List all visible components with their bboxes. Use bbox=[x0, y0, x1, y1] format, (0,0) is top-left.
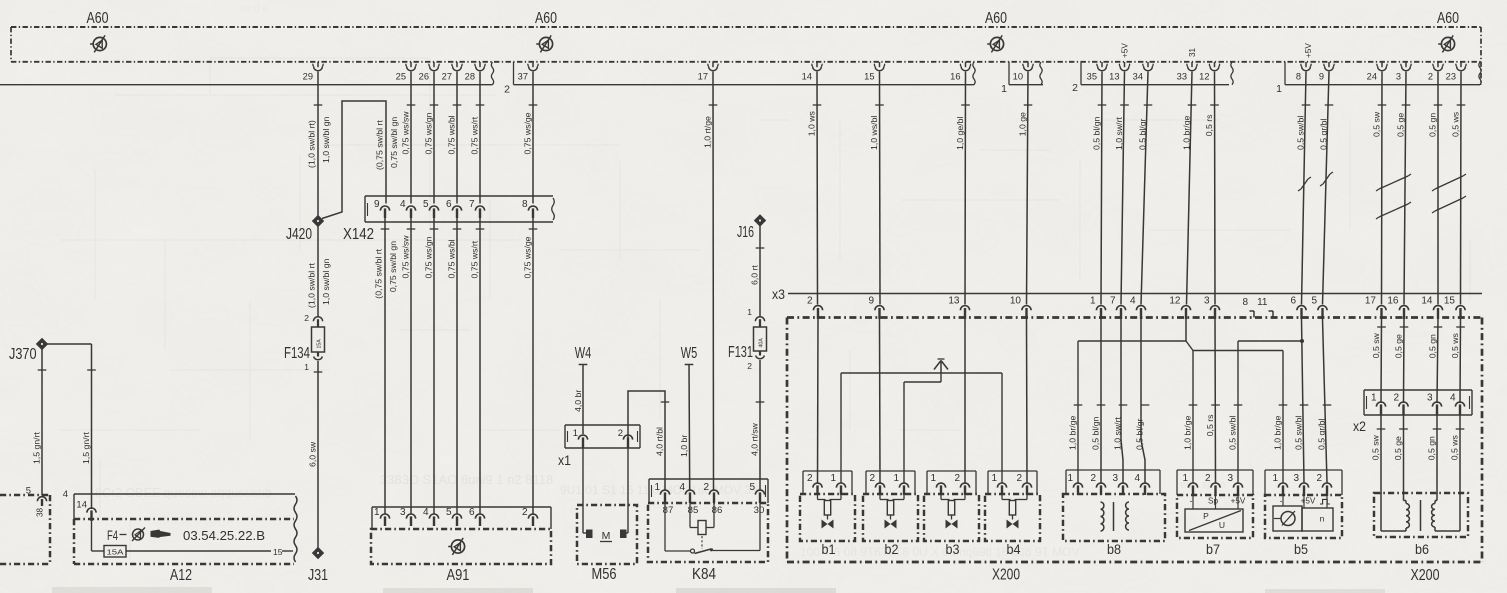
svg-text:J16: J16 bbox=[737, 224, 754, 241]
svg-text:03.54.25.22.B: 03.54.25.22.B bbox=[183, 528, 265, 543]
A60 pin 15 socket bbox=[864, 62, 885, 82]
svg-text:14: 14 bbox=[802, 72, 812, 82]
wire X200 pin to x2 (0,5 gn) bbox=[1437, 319, 1438, 403]
svg-text:1: 1 bbox=[654, 482, 660, 493]
wire A60 to X142 at x411 bbox=[410, 72, 412, 204]
label 1,0 sw/rt at x1123 bbox=[1113, 405, 1128, 450]
fuse F131 bbox=[728, 307, 767, 371]
injector valve b3 bbox=[924, 471, 979, 557]
svg-text:0,5 gr/bl: 0,5 gr/bl bbox=[1319, 119, 1329, 150]
label 4,0 rt/sw bbox=[750, 402, 765, 456]
A60 pin 17 socket bbox=[698, 62, 719, 82]
svg-text:1: 1 bbox=[1090, 296, 1096, 307]
wire X200 pin12 to b8/b7/b5 branch bbox=[1078, 319, 1283, 483]
ground point W5 bbox=[681, 345, 698, 490]
svg-text:11: 11 bbox=[1257, 297, 1268, 308]
svg-text:M: M bbox=[602, 530, 611, 542]
A60 pin 23 socket bbox=[1446, 62, 1467, 82]
wire X200 pin to injector x880 bbox=[879, 319, 882, 483]
svg-text:1,0 ge: 1,0 ge bbox=[1018, 112, 1028, 136]
svg-text:28: 28 bbox=[465, 72, 475, 82]
wire A60 to X200 (0,5 rs) bbox=[1214, 72, 1217, 305]
svg-text:0,75 ws/rt: 0,75 ws/rt bbox=[470, 116, 480, 154]
svg-text:1,0 br/ge: 1,0 br/ge bbox=[1182, 115, 1192, 149]
connector x3 line bbox=[772, 286, 1482, 302]
wire X200 pin7 to b8 bbox=[1121, 319, 1123, 483]
motor M56 bbox=[577, 448, 637, 583]
svg-text:J370: J370 bbox=[9, 346, 37, 363]
svg-text:38: 38 bbox=[36, 507, 45, 517]
svg-text:2: 2 bbox=[522, 507, 528, 518]
svg-text:1,0 br/ge: 1,0 br/ge bbox=[1183, 415, 1193, 449]
X200 pin 7 bbox=[1110, 296, 1126, 320]
svg-text:0,5 gn: 0,5 gn bbox=[1428, 334, 1438, 358]
svg-text:33: 33 bbox=[1177, 72, 1187, 82]
svg-text:2: 2 bbox=[304, 313, 309, 323]
svg-text:-: - bbox=[1190, 497, 1193, 506]
label 0,5 sw below x2 bbox=[1371, 429, 1386, 460]
wire A60 pin23 to X200 pin15 bbox=[1460, 72, 1463, 305]
svg-text:1,0 br/ge: 1,0 br/ge bbox=[1068, 415, 1078, 449]
svg-text:0,75 ws/rt: 0,75 ws/rt bbox=[470, 240, 480, 278]
svg-text:2: 2 bbox=[1393, 393, 1399, 404]
wire X200 pin5 to b5 bbox=[1323, 319, 1328, 483]
svg-text:1,5 gn/rt: 1,5 gn/rt bbox=[81, 432, 91, 464]
wire x2 to b6 (0,5 ge) bbox=[1403, 415, 1405, 494]
wire J420 to X142 pin9 bbox=[322, 101, 386, 219]
connector X142 bbox=[343, 196, 554, 243]
labels below X142 x385 bbox=[374, 229, 398, 299]
svg-text:Sp: Sp bbox=[1208, 497, 1218, 506]
A60 pin 28 socket bbox=[465, 62, 486, 82]
svg-text:4,0 rt/sw: 4,0 rt/sw bbox=[750, 422, 760, 456]
svg-text:40A: 40A bbox=[758, 338, 764, 348]
A60 pin 9 socket bbox=[1319, 62, 1334, 82]
svg-text:15A: 15A bbox=[316, 339, 322, 349]
shell end squiggle 2 bbox=[973, 62, 975, 85]
svg-text:0,75 ws/bl: 0,75 ws/bl bbox=[447, 239, 457, 278]
wire A60 to X200 (1,0 sw/rt) bbox=[1121, 72, 1125, 305]
label 0,5 rs at x1215.5 bbox=[1205, 405, 1220, 436]
label 0,5 gn below x2 bbox=[1427, 429, 1442, 460]
svg-text:3: 3 bbox=[1227, 473, 1233, 484]
svg-text:F4: F4 bbox=[107, 527, 118, 543]
X200 pin 2 bbox=[807, 296, 823, 320]
label 0,75 ws/gn bbox=[424, 105, 439, 155]
shell 2 bracket+line bbox=[514, 62, 975, 85]
component A91 (connector strip + box + ground) bbox=[371, 507, 551, 584]
svg-text:J31: J31 bbox=[308, 567, 328, 584]
wire X200 pin to x2 (0,5 ws) bbox=[1459, 319, 1462, 403]
A60 label #2 bbox=[535, 10, 557, 27]
svg-text:0,5 rs: 0,5 rs bbox=[1204, 114, 1214, 136]
label 0,5 ws (pin23) bbox=[1451, 105, 1466, 137]
X200 pin 13 bbox=[948, 296, 969, 320]
svg-text:b8: b8 bbox=[1107, 541, 1121, 557]
svg-text:X142: X142 bbox=[343, 226, 374, 243]
label 0,5 sw above x2 bbox=[1371, 327, 1386, 358]
svg-text:9: 9 bbox=[868, 296, 874, 307]
wire A60 pin24 to X200 pin17 bbox=[1381, 72, 1384, 305]
svg-text:A60: A60 bbox=[87, 10, 109, 27]
A60 pin 10 socket bbox=[1013, 62, 1034, 82]
svg-text:0,75 ws/bl: 0,75 ws/bl bbox=[447, 115, 457, 154]
arrow symbol up bbox=[934, 359, 948, 373]
control unit X200 box bbox=[787, 318, 1482, 585]
svg-text:0,5 sw: 0,5 sw bbox=[1371, 434, 1381, 460]
X200 pin 10 bbox=[1010, 296, 1031, 320]
coils b6 bbox=[1374, 493, 1468, 557]
shell 2b bracket+line bbox=[1081, 62, 1229, 85]
label +5V at pin 8 bbox=[1304, 43, 1313, 58]
label 6,0 rt bbox=[750, 248, 765, 285]
label 0,75 ws/bl bbox=[447, 105, 462, 155]
X200 pin 4 bbox=[1130, 296, 1146, 320]
svg-text:2: 2 bbox=[807, 296, 813, 307]
svg-text:(0,75 sw/bl rt: (0,75 sw/bl rt bbox=[374, 248, 384, 298]
svg-text:A12: A12 bbox=[170, 567, 192, 584]
svg-text:0,5 bl/gn: 0,5 bl/gn bbox=[1091, 416, 1101, 449]
A60 pin 25 socket bbox=[396, 62, 417, 82]
svg-text:0,5 bl/gr: 0,5 bl/gr bbox=[1138, 118, 1148, 149]
label 1,0 br/ge at x1193 bbox=[1183, 405, 1198, 450]
ground screw symbol under A60 #1 bbox=[90, 35, 106, 52]
label 1,0 ws/bl bbox=[869, 105, 884, 150]
svg-text:1,0 rt/ge: 1,0 rt/ge bbox=[703, 116, 713, 148]
wire J370 branch bbox=[42, 344, 92, 509]
svg-text:8: 8 bbox=[522, 199, 528, 210]
wire A60 to X200 (1,0 ws/bl) bbox=[879, 72, 882, 305]
svg-text:M56: M56 bbox=[592, 566, 617, 583]
svg-text:3: 3 bbox=[1427, 393, 1433, 404]
shell 1b label bbox=[1276, 83, 1282, 95]
label 0,75 ws/rt bbox=[470, 105, 485, 155]
svg-text:2: 2 bbox=[807, 473, 813, 484]
svg-text:1,0 sw/bl gn: 1,0 sw/bl gn bbox=[321, 116, 331, 163]
shell end squiggle 5 bbox=[1479, 62, 1481, 85]
svg-text:14: 14 bbox=[1421, 296, 1433, 307]
twist mark pin9 wire bbox=[1320, 172, 1333, 186]
svg-text:1,0 ws/bl: 1,0 ws/bl bbox=[869, 116, 879, 150]
label 1,0 br/ge bbox=[1182, 105, 1197, 150]
injector valve b4 bbox=[985, 471, 1040, 557]
svg-text:6: 6 bbox=[469, 507, 475, 518]
svg-text:0,5 ws: 0,5 ws bbox=[1451, 111, 1461, 137]
svg-text:2: 2 bbox=[618, 428, 623, 439]
A60 pin 8 socket bbox=[1296, 62, 1311, 82]
wire A60 to X142 at x480 bbox=[479, 72, 481, 204]
label 0,5 sw/bl (pin8) bbox=[1296, 105, 1311, 150]
wire X142 to A91 at x411 bbox=[410, 218, 412, 514]
wire A60 pin8 to X200 pin6 bbox=[1302, 72, 1307, 305]
svg-text:14: 14 bbox=[76, 500, 87, 511]
svg-text:1: 1 bbox=[1371, 393, 1377, 404]
svg-text:9U1 01 S1 16 11 0 MOt11uc MOV: 9U1 01 S1 16 11 0 MOt11uc MOV 3se bbox=[560, 483, 764, 497]
shell 2b label bbox=[1072, 82, 1078, 94]
A60 pin 37 socket bbox=[518, 62, 539, 82]
svg-text:A60: A60 bbox=[985, 10, 1007, 27]
twist mark pin8 wire bbox=[1298, 177, 1311, 191]
X200 pin 16 bbox=[1387, 296, 1408, 320]
svg-text:15: 15 bbox=[864, 72, 874, 82]
svg-text:b4: b4 bbox=[1007, 541, 1021, 557]
svg-text:17: 17 bbox=[698, 72, 708, 82]
svg-text:3: 3 bbox=[400, 507, 406, 518]
A60 pin 2 socket bbox=[1428, 62, 1443, 82]
wire A60 to X200 (1,0 br/ge) bbox=[1187, 72, 1193, 305]
A60 pin 33 socket bbox=[1177, 62, 1198, 82]
svg-text:2: 2 bbox=[1016, 473, 1022, 484]
labels wire J420-F134 bbox=[307, 258, 331, 308]
label 6,0 sw bbox=[308, 372, 323, 467]
svg-text:27: 27 bbox=[442, 72, 452, 82]
svg-text:4,0 rt/bl: 4,0 rt/bl bbox=[655, 427, 665, 456]
label 1,0 ws bbox=[807, 105, 822, 136]
svg-text:5: 5 bbox=[26, 486, 31, 497]
svg-text:1: 1 bbox=[830, 473, 836, 484]
svg-text:A60: A60 bbox=[535, 10, 557, 27]
svg-text:0,5 bl/gr: 0,5 bl/gr bbox=[1135, 418, 1145, 449]
wire X200 pin4 to b8 bbox=[1141, 319, 1145, 483]
svg-text:5: 5 bbox=[446, 507, 452, 518]
svg-text:0,5 sw/bl: 0,5 sw/bl bbox=[1228, 416, 1238, 450]
label 1,0 br/ge at x1078 bbox=[1068, 405, 1083, 450]
svg-text:1: 1 bbox=[893, 473, 899, 484]
label 1,0 ge/bl bbox=[955, 105, 970, 150]
svg-text:2: 2 bbox=[1316, 473, 1322, 484]
svg-text:6: 6 bbox=[1290, 296, 1296, 307]
svg-text:J420: J420 bbox=[286, 226, 312, 243]
injector valve b2 bbox=[863, 471, 918, 557]
A60 pin 29 socket bbox=[303, 62, 324, 82]
label 0,5 ge (pin3) bbox=[1396, 105, 1411, 137]
svg-text:0,5 ge: 0,5 ge bbox=[1394, 334, 1404, 358]
svg-text:86: 86 bbox=[712, 505, 723, 516]
A60 pin 35 socket bbox=[1087, 62, 1108, 82]
X200 pin 8 stub bbox=[1242, 297, 1254, 318]
svg-text:0,75 ws/gn: 0,75 ws/gn bbox=[424, 112, 434, 154]
svg-text:85: 85 bbox=[688, 505, 699, 516]
svg-text:0,75 sw/bl gn: 0,75 sw/bl gn bbox=[388, 241, 398, 292]
label 0,5 gn above x2 bbox=[1428, 327, 1443, 358]
svg-text:13: 13 bbox=[948, 296, 960, 307]
svg-text:2: 2 bbox=[869, 473, 875, 484]
svg-text:2: 2 bbox=[1090, 473, 1096, 484]
svg-text:3: 3 bbox=[1204, 296, 1210, 307]
component A12 (fuse F4 box) bbox=[63, 489, 297, 584]
svg-text:-: - bbox=[1280, 497, 1283, 506]
labels below X142 x457 bbox=[447, 229, 462, 279]
label 0,5 bl/gn at x1101 bbox=[1091, 405, 1106, 450]
label +5V at pin 13 bbox=[1121, 43, 1130, 58]
labels wire 29 bbox=[307, 105, 331, 168]
svg-text:1,5 gn/rt: 1,5 gn/rt bbox=[32, 432, 42, 464]
svg-text:+5V: +5V bbox=[1121, 43, 1130, 58]
svg-text:0,5 sw: 0,5 sw bbox=[1372, 111, 1382, 137]
svg-text:3: 3 bbox=[1396, 72, 1401, 82]
X200 pin 12 bbox=[1169, 296, 1190, 320]
svg-text:0,75 ws/ge: 0,75 ws/ge bbox=[523, 236, 533, 278]
hall sensor b5 bbox=[1265, 470, 1342, 557]
svg-text:b6: b6 bbox=[1415, 541, 1429, 557]
svg-text:24: 24 bbox=[1367, 72, 1377, 82]
svg-text:16: 16 bbox=[1387, 296, 1399, 307]
label 1,5 gn/rt left bbox=[32, 370, 47, 464]
wire J16 to F131 bbox=[759, 226, 761, 317]
wire A60 pin2 to X200 pin14 bbox=[1437, 72, 1439, 305]
wire A60 to X142 at x434 bbox=[433, 72, 435, 204]
A60 label #1 bbox=[87, 10, 109, 27]
shell 1b bracket+line bbox=[1285, 62, 1480, 85]
X200 pin 9 bbox=[868, 296, 884, 320]
svg-text:(1,0 sw/bl rt): (1,0 sw/bl rt) bbox=[307, 120, 317, 168]
label 0,5 bl/gr at x1145 bbox=[1135, 405, 1150, 450]
label 0,75 ws/sw bbox=[401, 105, 416, 155]
shell 2 label bbox=[504, 84, 510, 96]
svg-text:X200: X200 bbox=[1411, 567, 1440, 584]
svg-text:1: 1 bbox=[304, 362, 309, 372]
svg-text:P: P bbox=[1203, 511, 1209, 521]
label 0,5 ge above x2 bbox=[1394, 327, 1409, 358]
label 0,75 ws/ge bbox=[523, 105, 538, 155]
label 0,5 ws below x2 bbox=[1450, 429, 1465, 460]
label 0,5 ws above x2 bbox=[1450, 327, 1465, 358]
label 1,5 gn/rt right bbox=[81, 370, 96, 464]
label 1,0 br/ge at x1283 bbox=[1273, 405, 1288, 450]
X200 pin 3 bbox=[1204, 296, 1220, 320]
ground screw symbol under A60 #4 bbox=[1438, 35, 1454, 52]
svg-text:17: 17 bbox=[1365, 296, 1377, 307]
wire A60 to X200 (1,0 ge/bl) bbox=[964, 72, 967, 305]
wire A60 pin3 to X200 pin16 bbox=[1404, 72, 1406, 305]
svg-text:8: 8 bbox=[1296, 72, 1301, 82]
svg-text:0,5 rs: 0,5 rs bbox=[1205, 414, 1215, 436]
svg-text:(0,75 sw/bl rt: (0,75 sw/bl rt bbox=[375, 120, 385, 170]
wire x2 to b6 (0,5 gn) bbox=[1436, 415, 1438, 494]
wire X142 to A91 at x480 bbox=[479, 218, 481, 514]
A60 pin 3 socket bbox=[1396, 62, 1411, 82]
svg-text:1: 1 bbox=[1001, 83, 1007, 95]
svg-text:2: 2 bbox=[703, 482, 709, 493]
svg-text:1,0 br/ge: 1,0 br/ge bbox=[1273, 415, 1283, 449]
labels below X142 x533 bbox=[523, 229, 538, 279]
svg-text:F131: F131 bbox=[728, 344, 753, 361]
svg-text:x1: x1 bbox=[558, 452, 571, 468]
svg-text:12: 12 bbox=[1199, 72, 1209, 82]
label 0,5 bl/gn bbox=[1092, 105, 1107, 150]
wire X200 pin to x2 (0,5 sw) bbox=[1380, 319, 1383, 403]
svg-text:1,0 br: 1,0 br bbox=[679, 435, 689, 457]
svg-text:6: 6 bbox=[446, 199, 452, 210]
svg-text:8: 8 bbox=[1242, 297, 1248, 308]
wire X200 pin6 to b5/b7 branch bbox=[1238, 319, 1304, 483]
svg-text:35: 35 bbox=[1087, 72, 1097, 82]
svg-text:A60: A60 bbox=[1437, 10, 1459, 27]
svg-text:4: 4 bbox=[63, 489, 68, 500]
svg-text:0,5 sw: 0,5 sw bbox=[1371, 332, 1381, 358]
svg-text:1,0 sw/rt: 1,0 sw/rt bbox=[1114, 117, 1124, 150]
svg-text:9: 9 bbox=[1319, 72, 1324, 82]
A60 label #4 bbox=[1437, 10, 1459, 27]
svg-text:100 T 6 08 9T6T9T8 0U X 6umq69: 100 T 6 08 9T6T9T8 0U X 6umq69tl 16 608 … bbox=[800, 545, 1080, 559]
wire X200 pin3 to b7 bbox=[1214, 319, 1217, 483]
wire x2 to b6 (0,5 ws) bbox=[1459, 415, 1461, 494]
wire X200 pin to x2 (0,5 ge) bbox=[1403, 319, 1406, 403]
svg-text:4,0 br: 4,0 br bbox=[573, 390, 583, 412]
wire X200 pin1 to b8 bbox=[1100, 319, 1102, 483]
svg-text:2: 2 bbox=[1072, 82, 1078, 94]
wire x1 pin1 to M56 bbox=[583, 448, 586, 533]
wire A60 to X200 (1,0 ws) bbox=[816, 72, 819, 305]
connector x2 bbox=[1353, 390, 1472, 434]
svg-text:0,5 ws: 0,5 ws bbox=[1450, 333, 1460, 359]
pressure sensor b7 bbox=[1177, 470, 1253, 557]
svg-text:4: 4 bbox=[1450, 393, 1456, 404]
svg-text:1,0 ge/bl: 1,0 ge/bl bbox=[955, 117, 965, 150]
svg-text:0,5 ws: 0,5 ws bbox=[1450, 435, 1460, 461]
shell 1 label (pin 10 group) bbox=[1001, 83, 1007, 95]
label 1,0 sw/rt bbox=[1114, 105, 1129, 150]
svg-text:2: 2 bbox=[1428, 72, 1433, 82]
A60 pin 26 socket bbox=[419, 62, 440, 82]
A60 pin 14 socket bbox=[802, 62, 823, 82]
A60 pin 34 socket bbox=[1133, 62, 1154, 82]
svg-text:2: 2 bbox=[1205, 473, 1211, 484]
svg-text:ne d s: ne d s bbox=[240, 4, 267, 15]
svg-text:5: 5 bbox=[1311, 296, 1317, 307]
svg-text:0,5 gn: 0,5 gn bbox=[1428, 113, 1438, 137]
A60 pin 24 socket bbox=[1367, 62, 1388, 82]
wire X142 to A91 at x533 bbox=[532, 218, 534, 514]
X200 pin 15 bbox=[1444, 296, 1465, 320]
wire X142 to A91 at x434 bbox=[433, 218, 435, 514]
svg-text:10: 10 bbox=[1010, 296, 1022, 307]
svg-text:0,5 gn: 0,5 gn bbox=[1427, 436, 1437, 460]
svg-text:U: U bbox=[1219, 520, 1225, 530]
svg-text:b5: b5 bbox=[1294, 541, 1308, 557]
svg-text:15A: 15A bbox=[107, 550, 124, 557]
svg-text:15: 15 bbox=[273, 547, 283, 557]
svg-text:0,5 sw/bl: 0,5 sw/bl bbox=[1296, 116, 1306, 150]
label 1,0 rt/ge bbox=[703, 105, 718, 148]
svg-text:b7: b7 bbox=[1206, 541, 1220, 557]
svg-text:3383O S1AO 6uni9 1 n2 8118: 3383O S1AO 6uni9 1 n2 8118 bbox=[380, 472, 553, 487]
connector x1 bbox=[558, 425, 640, 468]
wire X142 to A91 at x457 bbox=[456, 218, 458, 514]
solder joint J370 bbox=[9, 338, 48, 363]
svg-text:0,5 gr/bl: 0,5 gr/bl bbox=[1317, 418, 1327, 449]
wire A60 to X142 at x533 bbox=[532, 72, 534, 204]
svg-text:X200: X200 bbox=[992, 567, 1020, 584]
solder joint J16 bbox=[737, 214, 766, 241]
svg-text:3: 3 bbox=[1293, 473, 1299, 484]
svg-text:30: 30 bbox=[754, 505, 765, 516]
X200 pin 11 stub bbox=[1257, 297, 1273, 318]
svg-text:b3: b3 bbox=[946, 541, 960, 557]
svg-text:0,75 ws/gn: 0,75 ws/gn bbox=[424, 236, 434, 278]
svg-text:6,0 sw: 6,0 sw bbox=[308, 441, 318, 467]
svg-text:5: 5 bbox=[749, 482, 755, 493]
fuse F134 bbox=[284, 313, 325, 372]
A60 pin 27 socket bbox=[442, 62, 463, 82]
svg-text:29: 29 bbox=[303, 72, 313, 82]
relay K84 bbox=[648, 479, 768, 583]
svg-text:23: 23 bbox=[1446, 72, 1456, 82]
svg-text:4: 4 bbox=[1134, 473, 1140, 484]
label 4,0 rt/bl bbox=[655, 402, 670, 456]
solder joint J420 bbox=[286, 215, 324, 243]
labels wire J420-X142 bbox=[375, 117, 399, 170]
